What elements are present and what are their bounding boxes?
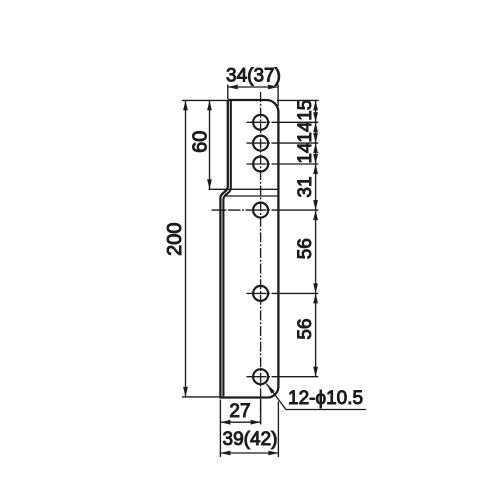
chain arrows at H4	[313, 200, 318, 220]
top width extension line left	[227, 85, 229, 100]
svg-text:14: 14	[295, 142, 316, 164]
chain arrow at H6 (down tip)	[313, 367, 318, 377]
svg-text:34(37): 34(37)	[226, 66, 281, 87]
svg-text:15: 15	[295, 100, 316, 121]
svg-text:14: 14	[295, 121, 316, 143]
arrow 27 left	[220, 420, 230, 425]
chain arrows at H2	[313, 133, 318, 153]
hole H5	[253, 286, 268, 301]
horizontal centerline hole H4 / extension line 31-56	[212, 209, 319, 211]
hole H4	[253, 203, 268, 218]
arrow 60 bottom	[207, 179, 212, 189]
arrow 60 top	[207, 100, 212, 110]
svg-text:27: 27	[229, 401, 250, 422]
bend line upper (extension of 60 dim)	[209, 188, 278, 190]
arrow 34 right	[268, 85, 278, 90]
dimension line 200	[185, 100, 187, 397]
svg-text:39(42): 39(42)	[223, 429, 278, 450]
bracket outline (outer profile)	[220, 100, 278, 398]
svg-text:31: 31	[295, 176, 316, 197]
horizontal centerline hole H3 / extension line 14-31	[247, 163, 319, 165]
top width extension line right	[277, 85, 279, 107]
bracket thickness inner line	[223, 101, 230, 396]
leader arrow at hole H6	[266, 384, 274, 394]
arrow 39 left	[220, 451, 230, 456]
bottom right extension line	[277, 402, 279, 458]
horizontal centerline hole H2 / extension line 14-14	[247, 142, 319, 144]
dimension line 27	[220, 421, 260, 423]
hole H3	[253, 157, 268, 172]
arrow 200 top	[183, 100, 188, 110]
arrow 200 bottom	[183, 387, 188, 397]
horizontal centerline hole H1 / extension line 15-14	[247, 121, 319, 123]
bottom extension line at part bottom for 200 dim	[182, 396, 219, 398]
chain arrows at top (up tip)	[313, 100, 318, 110]
svg-text:56: 56	[295, 238, 316, 259]
svg-text:12-ϕ10.5: 12-ϕ10.5	[288, 388, 363, 409]
leader line for hole callout	[266, 384, 366, 410]
dimension line 60	[209, 100, 211, 189]
bottom middle extension line (hole centerline continuation)	[260, 398, 262, 425]
hole H6	[253, 369, 268, 384]
bend line lower	[224, 195, 277, 197]
svg-text:200: 200	[164, 223, 186, 256]
arrow 39 right	[268, 451, 278, 456]
horizontal centerline hole H5 / extension line 56-56	[247, 292, 319, 294]
dimension line 39(42)	[220, 452, 278, 454]
arrow 27 right	[251, 420, 261, 425]
right chain dimension line	[315, 100, 317, 376]
chain arrows at H5	[313, 283, 318, 303]
top extension line at part top for 200 and 60 dims	[182, 99, 230, 101]
hole H1	[253, 115, 268, 130]
chain arrows at H3	[313, 154, 318, 174]
svg-text:60: 60	[190, 131, 212, 153]
hole H2	[253, 136, 268, 151]
arrow 34 left	[228, 85, 238, 90]
bottom left extension line	[219, 400, 221, 458]
dimension line 34(37)	[228, 86, 278, 88]
vertical centerline through holes	[260, 92, 262, 424]
right chain extension line at part top	[277, 99, 319, 101]
svg-text:56: 56	[295, 318, 316, 339]
horizontal centerline hole H6 / extension line 56 bottom	[247, 376, 319, 378]
chain arrows at H1	[313, 112, 318, 132]
